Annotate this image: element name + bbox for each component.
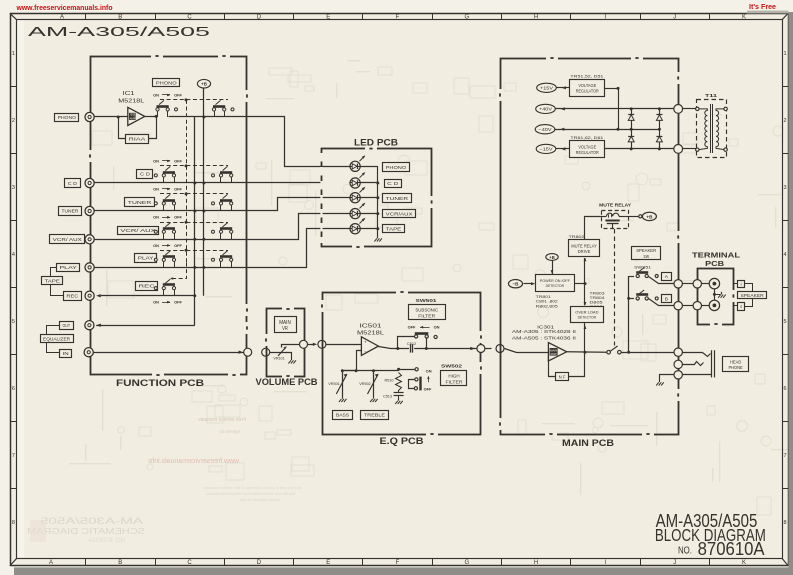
VOLUME PCB outline [267, 309, 305, 377]
wire op-amp output [145, 116, 158, 118]
svg-text:+15V: +15V [540, 86, 553, 91]
svg-text:C D: C D [68, 181, 78, 187]
wire +40V line [556, 108, 675, 110]
svg-text:TUNER: TUNER [62, 209, 79, 215]
svg-text:and is a part of an old collec: and is a part of an old collection of fr… [203, 485, 302, 490]
label box LED PHONO [383, 163, 410, 172]
wire LED TAPE to bus [361, 228, 378, 230]
jack EQUALIZER IN [84, 348, 93, 357]
svg-text:ON: ON [426, 368, 432, 373]
svg-text:ON: ON [153, 92, 159, 97]
wire LED C D to bus [361, 182, 378, 184]
bus mech gang dashed vertical [186, 100, 188, 263]
node eq in [318, 340, 326, 348]
svg-text:VOLTAGE: VOLTAGE [578, 83, 596, 88]
LED PHONO [350, 161, 360, 171]
LED C D [350, 178, 360, 188]
jack TUNER [85, 206, 94, 215]
TREBLE box [361, 411, 389, 420]
svg-text:+40V: +40V [539, 107, 552, 112]
input jack label PHONO [55, 114, 79, 122]
power rail -40V oval [535, 125, 555, 134]
speaker terminal B [709, 300, 719, 310]
svg-text:C512: C512 [407, 341, 416, 346]
switch row TUNER col A [163, 199, 175, 202]
EQUALIZER bracket wires [47, 326, 60, 335]
wire power detector to drive and overload [584, 258, 586, 284]
wire edge to terminal A [682, 283, 693, 285]
svg-text:5: 5 [12, 319, 15, 325]
wire IC501 output [379, 347, 398, 349]
svg-text:SUBSONIC: SUBSONIC [415, 307, 438, 313]
svg-text:B: B [665, 296, 668, 301]
svg-text:VCR/AUX: VCR/AUX [386, 211, 414, 217]
wire LED PHONO to bus [361, 166, 378, 168]
TAPE bracket wires [51, 268, 57, 277]
wire eq output [426, 348, 477, 350]
svg-text:N F: N F [559, 374, 566, 379]
label OUT box [60, 322, 74, 330]
gang dashed TUNER [160, 193, 228, 195]
svg-text:8: 8 [783, 520, 786, 526]
svg-text:Free service manuals: Free service manuals [198, 417, 246, 423]
svg-text:TUNER: TUNER [386, 196, 409, 202]
wire VR101 wiper out [282, 345, 300, 348]
wire into terminal A [702, 283, 710, 285]
transformer T11 dashed box [697, 100, 727, 158]
svg-text:OUT: OUT [63, 323, 71, 328]
svg-text:ON: ON [153, 300, 159, 305]
bus +B vertical [203, 88, 205, 296]
svg-text:4: 4 [783, 252, 786, 258]
speaker terminal A [709, 278, 719, 288]
svg-text:C: C [187, 560, 192, 566]
jack VCR/AUX [85, 235, 94, 244]
bus listen vertical [194, 116, 196, 325]
transformer primary terminals [696, 107, 699, 110]
switch row PLAY col B [220, 255, 232, 258]
LED PCB outline [322, 149, 432, 247]
svg-text:C: C [187, 15, 192, 21]
wire relay to +B [625, 216, 638, 218]
svg-text:AMP.: AMP. [550, 352, 557, 356]
ground VR502 [373, 396, 375, 399]
svg-text:2: 2 [12, 118, 15, 124]
switch row CD col A [163, 171, 175, 174]
wire to transformer top [683, 108, 697, 110]
wire -15V line [556, 148, 570, 150]
svg-text:7: 7 [783, 453, 786, 459]
grid ticks top and bottom [85, 13, 87, 19]
headphone jack bar [711, 350, 713, 377]
jack CD [85, 178, 94, 187]
wire EQUALIZER OUT [96, 325, 195, 327]
svg-text:1: 1 [783, 51, 786, 57]
gang dashed CD [160, 165, 228, 167]
ghost bleed-through layer [69, 60, 793, 515]
svg-text:OFF: OFF [408, 325, 416, 330]
label REC inner box [136, 282, 158, 291]
ground VR501 [342, 396, 344, 399]
wire -40V line [555, 129, 659, 131]
label IN box [60, 350, 72, 358]
svg-text:OFF: OFF [174, 158, 182, 163]
speaker select bus vertical [628, 276, 630, 352]
op-amp IC501 triangle [361, 337, 378, 356]
svg-text:SW501: SW501 [416, 298, 438, 303]
svg-text:A: A [49, 560, 53, 566]
wire speaker B [649, 299, 675, 306]
svg-text:K: K [742, 560, 746, 566]
wire output to speaker bus [621, 352, 674, 354]
svg-text:REGULATOR: REGULATOR [576, 150, 599, 155]
label box LED CD [385, 180, 402, 188]
wire -B to power detector [524, 283, 532, 285]
LED bus vertical [377, 166, 379, 235]
svg-text:K: K [742, 15, 746, 21]
svg-text:OFF: OFF [424, 387, 432, 392]
svg-text:this file was downloaded from: this file was downloaded from freeservic… [207, 491, 295, 496]
svg-text:TAPE: TAPE [45, 278, 60, 284]
ground LED bus [377, 236, 379, 239]
node transformer feed bottom [674, 145, 683, 154]
switch row CD col B [220, 171, 232, 174]
svg-text:TAPE: TAPE [386, 227, 402, 233]
wire RIAA feedback [119, 117, 126, 139]
MUTE RELAY DRIVE box [569, 240, 600, 257]
svg-text:FILTER: FILTER [418, 313, 436, 319]
gang dashed PLAY [160, 250, 228, 252]
power node +B function [197, 79, 210, 88]
wire to transformer bottom [683, 148, 697, 150]
svg-text:HEAD: HEAD [730, 359, 742, 365]
svg-text:PLAY: PLAY [60, 265, 79, 271]
transformer secondary coil [716, 109, 724, 150]
switch row VCR/AUX col A [163, 227, 175, 230]
svg-text:PHONO: PHONO [386, 165, 407, 171]
switch row VCR/AUX col B [220, 227, 232, 230]
svg-text:REGULATOR: REGULATOR [576, 89, 599, 94]
svg-text:LED PCB: LED PCB [354, 138, 398, 149]
svg-text:TR801: TR801 [536, 295, 551, 299]
label box LED VCR/AUX [383, 210, 416, 218]
switch row TUNER col B [220, 199, 232, 202]
svg-text:R510: R510 [384, 379, 393, 383]
svg-text:−B: −B [512, 282, 519, 287]
resistor RIAA box [126, 135, 149, 144]
svg-text:F: F [396, 15, 400, 21]
op-amp main amp triangle [548, 343, 566, 361]
LED PCB left edge dashed overlay [320, 153, 322, 243]
jack PHONO [85, 112, 94, 121]
wire tone feedback [343, 351, 362, 371]
svg-text:C D: C D [387, 181, 399, 187]
svg-text:C801 ,802: C801 ,802 [536, 300, 558, 304]
svg-text:2: 2 [783, 118, 786, 124]
svg-text:J: J [673, 15, 676, 21]
svg-text:7: 7 [12, 453, 15, 459]
EQ PCB outline [323, 293, 481, 435]
svg-text:M5218L: M5218L [118, 98, 144, 104]
svg-text:VCR/ AUX: VCR/ AUX [53, 237, 83, 243]
rectifier column 2 [659, 109, 661, 149]
svg-text:A: A [60, 15, 64, 21]
wire TUNER row [95, 198, 350, 211]
LED VCR/AUX [350, 209, 360, 219]
svg-text:NO.: NO. [678, 544, 692, 556]
svg-text:AM-A505 : STK4036 II: AM-A505 : STK4036 II [512, 336, 576, 341]
node speaker B edge [674, 302, 682, 310]
transformer core [710, 104, 712, 153]
svg-text:TR804: TR804 [590, 296, 605, 300]
label PHONO above switch [153, 79, 180, 87]
svg-text:MUTE RELAY: MUTE RELAY [599, 203, 631, 208]
wire PLAY row [95, 229, 350, 268]
wire PHONO to LED [285, 117, 350, 167]
svg-text:G: G [464, 560, 469, 566]
wire edge to terminal B [682, 305, 693, 307]
wire LED VCR/AUX to bus [361, 213, 378, 215]
svg-text:PLAY: PLAY [138, 256, 155, 262]
op-amp IC1 triangle [128, 107, 145, 125]
svg-text:TREBLE: TREBLE [364, 413, 385, 419]
BASS box [333, 411, 353, 420]
svg-text:6: 6 [12, 386, 15, 392]
gang dashed PHONO [160, 99, 228, 101]
node terminal B left [693, 302, 701, 310]
svg-text:B: B [741, 304, 742, 309]
svg-text:TR61,62, D61: TR61,62, D61 [570, 135, 604, 140]
switch row PHONO col B [213, 105, 225, 108]
input jack label PLAY [57, 264, 80, 272]
wire VCR/AUX row [95, 214, 350, 240]
svg-text:VOLUME PCB: VOLUME PCB [256, 377, 318, 388]
svg-text:RIAA: RIAA [129, 137, 147, 142]
label VCR/AUX inner box [118, 227, 159, 235]
svg-text:It's Free: It's Free [749, 2, 776, 11]
ground headphone [659, 380, 661, 383]
svg-text:C513: C513 [383, 395, 392, 399]
svg-text:DETECTOR: DETECTOR [578, 315, 597, 320]
svg-text:E: E [326, 560, 330, 566]
svg-text:TR802: TR802 [569, 234, 586, 239]
svg-text:PCB: PCB [705, 259, 725, 268]
label box A right [738, 281, 745, 288]
svg-text:TR51,52, D51: TR51,52, D51 [570, 73, 604, 78]
power node +B detector [546, 254, 558, 261]
wire volume input [270, 352, 276, 354]
wire headphone sleeve [682, 374, 712, 376]
node terminal A left [693, 280, 701, 288]
wire EQUALIZER IN row [93, 352, 243, 354]
svg-text:www.freeservicemanuals.info: www.freeservicemanuals.info [16, 3, 114, 12]
svg-text:H: H [534, 560, 538, 566]
svg-text:AM-A305 : STK4028 II: AM-A305 : STK4028 II [512, 329, 576, 334]
svg-text:5: 5 [783, 319, 786, 325]
LED TAPE [350, 224, 360, 234]
arrow eq to main [485, 348, 492, 350]
SPEAKER SW box [632, 247, 661, 260]
svg-text:VR: VR [282, 326, 288, 332]
svg-text:VR502: VR502 [359, 382, 371, 386]
resistor R510 [396, 373, 402, 391]
gang dashed VCR/AUX [160, 222, 228, 224]
svg-text:B: B [118, 560, 122, 566]
svg-text:M5218L: M5218L [357, 330, 384, 336]
capacitor C513 [394, 392, 404, 394]
wire overload to output line [584, 322, 586, 352]
svg-text:IC1: IC1 [123, 91, 135, 97]
svg-text:Typeset by: Typeset by [218, 429, 241, 434]
svg-text:4: 4 [12, 252, 15, 258]
switch SW851 B [629, 298, 634, 300]
svg-text:H: H [534, 15, 538, 21]
wire main amp output [567, 351, 607, 353]
label EQUALIZER box [41, 335, 74, 343]
SUBSONIC FILTER box [409, 305, 446, 320]
node headphone tip [674, 348, 682, 356]
svg-text:870610A: 870610A [698, 539, 766, 559]
node volume in [262, 348, 270, 356]
svg-text:−15V: −15V [540, 147, 553, 152]
label PLAY inner box [135, 254, 157, 263]
wire REC row [101, 295, 195, 297]
FUNCTION PCB outline [91, 57, 247, 375]
wire drive to relay [585, 217, 602, 240]
node headphone sleeve [674, 371, 682, 379]
svg-text:OFF: OFF [174, 186, 182, 191]
transformer secondary terminals [724, 107, 727, 110]
potentiometer VR501 [342, 371, 344, 396]
relay box dashed [602, 211, 629, 229]
label box LED TUNER [383, 194, 412, 203]
potentiometer VR101 [276, 352, 287, 354]
svg-text:NO. B70611A: NO. B70611A [88, 538, 125, 544]
svg-text:OFF: OFF [174, 215, 182, 220]
wire regulator junction vertical [618, 88, 620, 129]
power node +B relay [642, 212, 656, 220]
svg-text:+B: +B [201, 82, 207, 87]
svg-text:AM-A305/A505: AM-A305/A505 [28, 24, 210, 39]
transformer primary coil [699, 109, 707, 150]
LED TUNER [350, 193, 360, 203]
svg-text:SW502: SW502 [441, 363, 463, 368]
rectifier column 1 [631, 109, 633, 149]
wire headphone ring contact [683, 362, 704, 366]
potentiometer VR502 [373, 371, 375, 396]
voltage regulator box 2 [570, 141, 605, 158]
wire eq input [326, 344, 361, 346]
input jack label VCR/AUX [50, 235, 85, 244]
relay coil [601, 216, 606, 218]
label box LED TAPE [383, 225, 405, 233]
input jack label CD [65, 179, 81, 188]
wire speaker A [649, 277, 675, 284]
svg-text:IN: IN [63, 351, 69, 356]
scan edge dark strip bottom [14, 567, 793, 575]
svg-text:OFF: OFF [174, 92, 182, 97]
svg-text:OFF: OFF [174, 300, 182, 305]
svg-text:please support the site: please support the site [239, 497, 280, 502]
svg-text:ON: ON [153, 186, 159, 191]
HEAD PHONE box [723, 357, 749, 372]
wire sleeve to ground [660, 375, 675, 380]
svg-text:IC501: IC501 [360, 323, 382, 329]
ground C513 [398, 398, 400, 401]
svg-text:REC: REC [139, 283, 156, 289]
svg-text:VCR/ AUX: VCR/ AUX [120, 228, 157, 234]
svg-text:+B: +B [549, 255, 554, 260]
label box B left [662, 295, 672, 303]
svg-text:HIGH: HIGH [448, 373, 460, 379]
svg-text:AMP: AMP [130, 117, 137, 121]
HIGH FILTER box [441, 371, 467, 386]
svg-text:FILTER: FILTER [445, 379, 463, 385]
input jack label REC [64, 292, 82, 301]
svg-text:−: − [364, 350, 367, 355]
wire PHONO row to LED corner [169, 116, 248, 118]
TERMINAL PCB outline [698, 269, 734, 325]
node function out [244, 348, 252, 356]
svg-text:C D: C D [140, 172, 151, 178]
label TUNER inner box [125, 198, 155, 207]
voltage regulator box 1 [570, 80, 605, 97]
input jack label TUNER [59, 207, 82, 216]
grid ticks left and right [10, 86, 17, 88]
node headphone ring [674, 360, 682, 368]
jack REC [85, 291, 94, 300]
svg-text:SPEAKER: SPEAKER [741, 293, 765, 298]
svg-text:DRIVE: DRIVE [578, 249, 591, 254]
svg-text:TUNER: TUNER [128, 200, 152, 206]
svg-text:PHONO: PHONO [58, 115, 77, 121]
node speaker A edge [674, 280, 682, 288]
svg-text:DETECTOR: DETECTOR [546, 283, 565, 288]
node transformer feed top [674, 105, 683, 114]
node volume out [300, 340, 308, 348]
label box A left [662, 273, 672, 281]
svg-text:MAIN PCB: MAIN PCB [562, 438, 614, 449]
svg-text:PHONO: PHONO [156, 80, 177, 86]
svg-text:J: J [673, 560, 676, 566]
svg-text:ON: ON [153, 215, 159, 220]
high filter switch SW502 [399, 369, 415, 371]
wire phono row [94, 116, 127, 118]
svg-text:6: 6 [783, 386, 786, 392]
node eq out [477, 345, 485, 353]
svg-text:E.Q PCB: E.Q PCB [380, 436, 424, 447]
jack PLAY [85, 263, 94, 272]
relay contact [605, 220, 619, 222]
svg-text:T11: T11 [705, 93, 718, 98]
svg-text:F: F [396, 560, 400, 566]
switch row PHONO col A [157, 105, 169, 108]
wire relay to speaker switch dashed [614, 229, 616, 346]
POWER ON/OFF DETECTOR box [536, 275, 575, 292]
svg-text:ON: ON [153, 158, 159, 163]
frame corner diagonals [10, 13, 17, 19]
svg-text:ON: ON [153, 243, 159, 248]
svg-text:BASS: BASS [336, 413, 349, 419]
svg-text:D: D [257, 560, 262, 566]
svg-text:3: 3 [12, 185, 15, 191]
power node -B [509, 280, 523, 288]
svg-text:REC: REC [66, 293, 79, 299]
wire CD row [94, 182, 322, 184]
svg-text:8: 8 [12, 520, 15, 526]
MAIN PCB outline [501, 59, 679, 435]
wire LED TUNER to bus [361, 197, 378, 199]
